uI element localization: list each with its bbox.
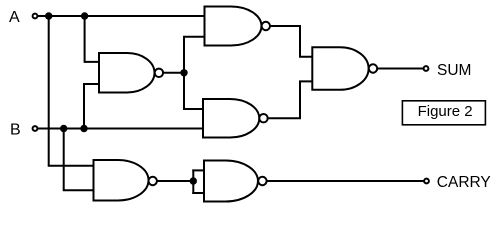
wire G5 output to G6 inputs: [157, 180, 193, 182]
wire G4 output to SUM terminal: [377, 68, 422, 70]
wire junction vertical up to G1 bottom input: [184, 37, 205, 73]
junction dot B2: [80, 125, 87, 132]
terminal A: [33, 14, 38, 19]
svg-text:B: B: [10, 122, 21, 139]
wire B horizontal to gate G3 bottom input: [39, 128, 203, 130]
junction dot G2 out: [180, 69, 187, 76]
wire G3 output to SUM gate bottom input: [268, 81, 312, 118]
wire G1 output to SUM gate top input: [270, 26, 312, 57]
terminal B: [33, 126, 38, 131]
wire B2 vertical up to gate G2 bottom input: [84, 84, 99, 129]
wire junction vertical down to G3 top input: [184, 73, 203, 109]
terminal SUM: [424, 66, 429, 71]
svg-text:A: A: [9, 9, 20, 26]
wire G6 output to CARRY terminal: [267, 180, 423, 182]
nand gate G4 (SUM output gate): [312, 47, 368, 90]
bubble of G4: [369, 64, 377, 72]
junction dot A2: [81, 12, 88, 19]
wire bracket to G6 bottom input: [193, 192, 204, 194]
nand gate G6 (inverter for CARRY): [204, 161, 258, 202]
svg-text:CARRY: CARRY: [437, 174, 491, 191]
svg-text:Figure 2: Figure 2: [418, 103, 473, 120]
junction dot A1: [45, 12, 52, 19]
bubble of G1: [262, 22, 270, 30]
wire bracket to G6 top input: [193, 169, 204, 171]
junction dot G5 out: [190, 177, 197, 184]
terminal CARRY: [424, 179, 429, 184]
nand gate G1 (NAND of A and G2out): [205, 7, 262, 46]
nand gate G5 (NAND of A,B for carry): [94, 160, 149, 201]
nand gate G3 (NAND of G2out and B): [203, 99, 259, 138]
wire input bracket vertical of G6: [192, 170, 194, 193]
wire B1 vertical down to CARRY nand bottom input: [64, 129, 94, 191]
wire A1 vertical down to CARRY nand input: [49, 16, 94, 166]
wire G2 output to junction: [163, 72, 184, 74]
wire A2 vertical down to gate G2 top input: [85, 16, 99, 62]
nand gate G2 (NAND of A,B): [99, 53, 155, 93]
bubble of G2: [155, 69, 163, 77]
svg-text:SUM: SUM: [437, 62, 471, 79]
Figure 2 caption box: [402, 101, 485, 125]
bubble of G5: [149, 177, 157, 185]
junction dot B1: [60, 125, 67, 132]
bubble of G6: [258, 177, 266, 185]
wire A horizontal: [39, 15, 205, 17]
bubble of G3: [259, 114, 267, 122]
